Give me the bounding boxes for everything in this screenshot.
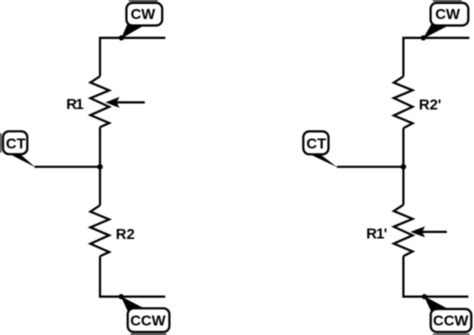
node: CCW terminal dot (left) — [119, 294, 124, 299]
node: CT junction dot (right) — [401, 164, 407, 170]
resistor R2 (lower element) — [90, 205, 109, 256]
resistor R2' (upper element) — [394, 76, 413, 128]
callout tail for left CT label — [9, 154, 36, 168]
svg-text:CCW: CCW — [433, 314, 468, 330]
node: CW terminal dot (left) — [119, 35, 124, 40]
cropped label remnant below left CCW — [130, 333, 166, 335]
svg-text:CW: CW — [131, 7, 156, 23]
resistor R1' (lower element, with wiper arrow) — [394, 205, 413, 256]
label CW (right) — [431, 3, 469, 26]
callout tail for left CW label — [121, 21, 143, 39]
svg-text:CCW: CCW — [130, 313, 165, 329]
svg-text:CT: CT — [306, 137, 326, 153]
label CCW (right) — [431, 309, 472, 332]
svg-text:R1': R1' — [366, 226, 387, 242]
svg-text:CT: CT — [6, 137, 26, 153]
wiper arrow of R1' — [421, 231, 447, 233]
cropped label remnant above left CW — [129, 0, 158, 2]
wire: vertical through CT junction (right) — [402, 128, 404, 205]
label CT (left) — [3, 131, 27, 154]
node: CCW terminal dot (right) — [422, 294, 427, 299]
wire: top horizontal CW rail (left) — [100, 38, 165, 76]
wire: CT stub (right) — [337, 166, 404, 168]
resistor R1 (upper element, with wiper arrow) — [90, 76, 109, 127]
svg-text:R2: R2 — [116, 227, 135, 243]
wire: bottom vertical + horizontal CCW rail (left) — [100, 256, 165, 296]
callout tail for right CW label — [423, 21, 447, 39]
cropped label remnant left of CT — [0, 133, 2, 152]
svg-text:CW: CW — [435, 7, 460, 23]
wire: CT stub (left) — [35, 166, 101, 168]
label CT (right) — [303, 131, 328, 154]
cropped label remnant below right CCW — [433, 334, 470, 335]
label CW (left) — [126, 3, 162, 26]
cropped label remnant above right CW — [433, 0, 462, 2]
node: CW terminal dot (right) — [421, 35, 426, 40]
callout tail for left CCW label — [121, 296, 149, 315]
label CCW (left) — [128, 308, 170, 332]
node: CT junction dot (left) — [97, 164, 103, 170]
wire: bottom vertical + horizontal CCW rail (right) — [403, 256, 468, 297]
wire: top horizontal CW rail (right) — [403, 38, 469, 77]
callout tail for right CT label — [309, 154, 337, 168]
svg-text:R1: R1 — [66, 97, 83, 113]
svg-text:R2': R2' — [419, 97, 441, 113]
wiper arrow of R1 — [116, 101, 145, 103]
wire: vertical through CT junction (left) — [99, 127, 101, 205]
callout tail for right CCW label — [424, 296, 452, 316]
